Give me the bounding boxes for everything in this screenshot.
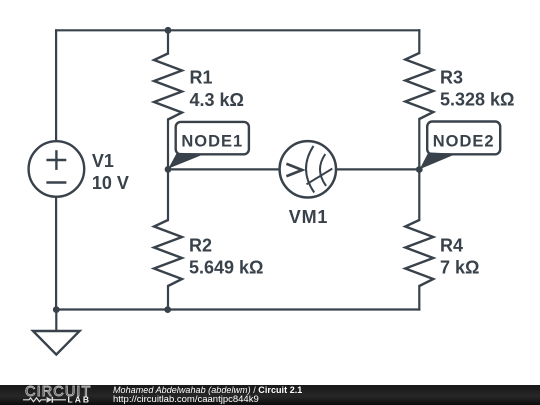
junction top (node at top rail and R1) [165, 27, 172, 34]
footer credit line [113, 385, 302, 395]
svg-text:NODE1: NODE1 [181, 133, 243, 151]
voltage source V1 [29, 141, 85, 197]
svg-text:R4: R4 [440, 236, 463, 256]
svg-text:V1: V1 [92, 151, 114, 171]
wire R2 top lead [167, 169, 169, 220]
node NODE1 flag [168, 122, 249, 169]
junction bottom-left [53, 306, 60, 313]
label VM1 [289, 207, 328, 227]
svg-text:5.649 kΩ: 5.649 kΩ [189, 258, 264, 278]
ground [33, 310, 80, 355]
junction NODE2 [416, 166, 423, 173]
wire R4 bottom lead [418, 286, 420, 310]
footer url line [113, 394, 259, 405]
wire left upper (top rail to V1) [55, 30, 57, 141]
svg-text:R2: R2 [189, 235, 212, 255]
wire R4 top lead [418, 169, 420, 220]
node NODE2 flag [420, 122, 501, 170]
voltmeter VM1 [280, 141, 336, 197]
wire R3 bottom lead [418, 119, 420, 169]
label R2 value [189, 235, 264, 277]
wire R1 top lead [167, 30, 169, 53]
svg-text:R3: R3 [440, 68, 463, 88]
label V1 value [92, 151, 129, 193]
svg-text:R1: R1 [190, 68, 213, 88]
svg-text:NODE2: NODE2 [433, 132, 495, 150]
wire voltmeter to node2 [336, 168, 419, 170]
wire node1 to voltmeter [168, 168, 280, 170]
wire R2 bottom lead [167, 286, 169, 310]
svg-text:10 V: 10 V [92, 173, 129, 193]
resistor R2 [154, 220, 182, 286]
svg-text:4.3 kΩ: 4.3 kΩ [190, 90, 244, 110]
wire bottom horizontal [56, 308, 419, 310]
resistor R3 [405, 53, 433, 119]
resistor R1 [154, 54, 182, 120]
footer bar [0, 385, 540, 405]
wire top horizontal [56, 29, 419, 31]
svg-text:LAB: LAB [68, 395, 91, 405]
resistor R4 [405, 220, 433, 286]
label R4 value [440, 236, 479, 278]
CircuitLab logo [18, 385, 108, 405]
label R3 value [440, 68, 515, 110]
svg-text:7 kΩ: 7 kΩ [440, 258, 479, 278]
junction bottom middle [164, 306, 171, 313]
wire R1 bottom lead [167, 120, 169, 170]
svg-text:VM1: VM1 [289, 207, 328, 227]
wire right upper (top rail to R3) [418, 30, 420, 53]
junction NODE1 [165, 166, 172, 173]
wire left lower (V1 to bottom rail) [55, 197, 57, 310]
label R1 value [190, 68, 244, 110]
svg-text:5.328 kΩ: 5.328 kΩ [440, 90, 515, 110]
